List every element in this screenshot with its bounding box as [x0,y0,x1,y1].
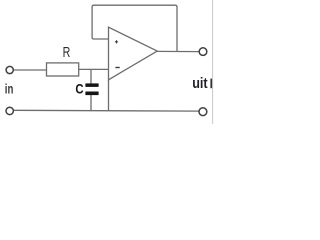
svg-text:uit: uit [192,76,208,92]
svg-text:R: R [63,45,71,61]
svg-text:in: in [5,81,14,96]
svg-text:C: C [75,82,83,97]
